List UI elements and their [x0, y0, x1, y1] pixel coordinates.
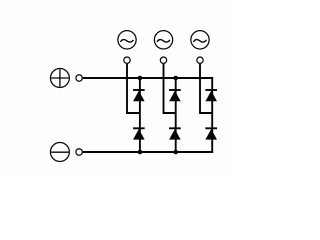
wire ac phase 1 (drop and jog to leg 1 midpoint)	[127, 64, 140, 113]
wire − bus	[83, 151, 213, 153]
diode D4 lower (leg 1 bottom)	[133, 128, 145, 139]
junction node leg1/−bus	[138, 150, 143, 155]
ac source V1	[118, 31, 136, 49]
wire leg 1 vertical	[139, 78, 141, 152]
wire leg 3 vertical	[211, 77, 213, 153]
wire leg 2 vertical	[175, 78, 177, 152]
terminal symbol minus (circled −)	[50, 143, 69, 162]
wire ac phase 3 (drop and jog to leg 3 midpoint)	[200, 64, 212, 113]
ac source V2	[154, 31, 172, 49]
diode D3 upper (leg 2 top)	[169, 90, 181, 101]
ac terminal node 3	[197, 57, 203, 63]
junction node leg1/+bus	[138, 76, 143, 81]
diode D2 lower (leg 3 bottom)	[205, 128, 217, 139]
junction node leg2/−bus	[173, 150, 178, 155]
ac terminal node 1	[124, 57, 130, 63]
wire + bus	[83, 77, 213, 79]
ac terminal node 2	[160, 57, 166, 63]
open terminal node (+ output)	[76, 75, 82, 81]
diode D1 upper (leg 1 top)	[133, 90, 145, 101]
diode D5 upper (leg 3 top)	[205, 90, 217, 101]
terminal symbol plus (circled +)	[50, 69, 69, 88]
ac source V3	[191, 31, 209, 49]
junction node leg2/+bus	[173, 76, 178, 81]
open terminal node (− output)	[76, 149, 82, 155]
wire ac phase 2 (drop and jog to leg 2 midpoint)	[164, 64, 176, 113]
diode D6 lower (leg 2 bottom)	[169, 128, 181, 139]
